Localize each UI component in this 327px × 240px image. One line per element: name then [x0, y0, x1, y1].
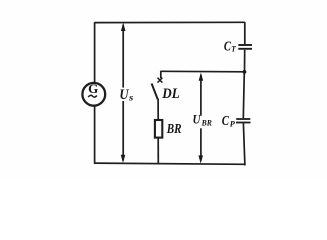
svg-text:BR: BR	[201, 119, 213, 128]
breaker DL: stub from middle wire	[160, 71, 162, 78]
svg-text:G: G	[88, 81, 98, 96]
svg-text:P: P	[230, 119, 236, 129]
breaker DL: contact cross x	[158, 78, 163, 83]
capacitor CP	[236, 119, 251, 123]
capacitor CT	[238, 45, 252, 49]
wire: BR down to bottom bus	[157, 138, 159, 164]
wire: left branch lower segment (generator to bottom corner)	[94, 106, 96, 163]
svg-text:U: U	[193, 112, 202, 127]
wire: middle horizontal (DL branch top to junction)	[161, 70, 245, 73]
voltage arrow U_BR (double-headed, junction wire to bottom bus)	[198, 73, 203, 164]
voltage arrow U_S (double-headed, between top and bottom bus)	[121, 23, 126, 163]
wire: left branch upper segment (top corner to generator)	[94, 22, 96, 82]
label ~ of generator	[88, 95, 97, 97]
svg-text:T: T	[231, 44, 237, 53]
wire: right branch, top corner down to capacitor CT	[244, 22, 246, 44]
wire: DL blade bottom down to resistor BR	[157, 99, 159, 120]
resistor BR	[155, 120, 162, 138]
svg-text:DL: DL	[161, 86, 179, 102]
wire: top bus from left corner to right corner	[95, 21, 245, 23]
wire: junction node down to capacitor CP	[243, 72, 244, 118]
svg-text:BR: BR	[166, 122, 182, 137]
wire: bottom bus	[94, 163, 245, 164]
wire: CP down to bottom bus	[243, 123, 245, 165]
wire: right branch, CT down to junction node	[244, 50, 246, 72]
node: junction of middle wire with right branch	[243, 70, 247, 74]
breaker DL: blade	[152, 84, 158, 100]
svg-text:s: s	[128, 93, 134, 103]
generator G	[82, 83, 105, 106]
svg-text:C: C	[222, 113, 230, 128]
